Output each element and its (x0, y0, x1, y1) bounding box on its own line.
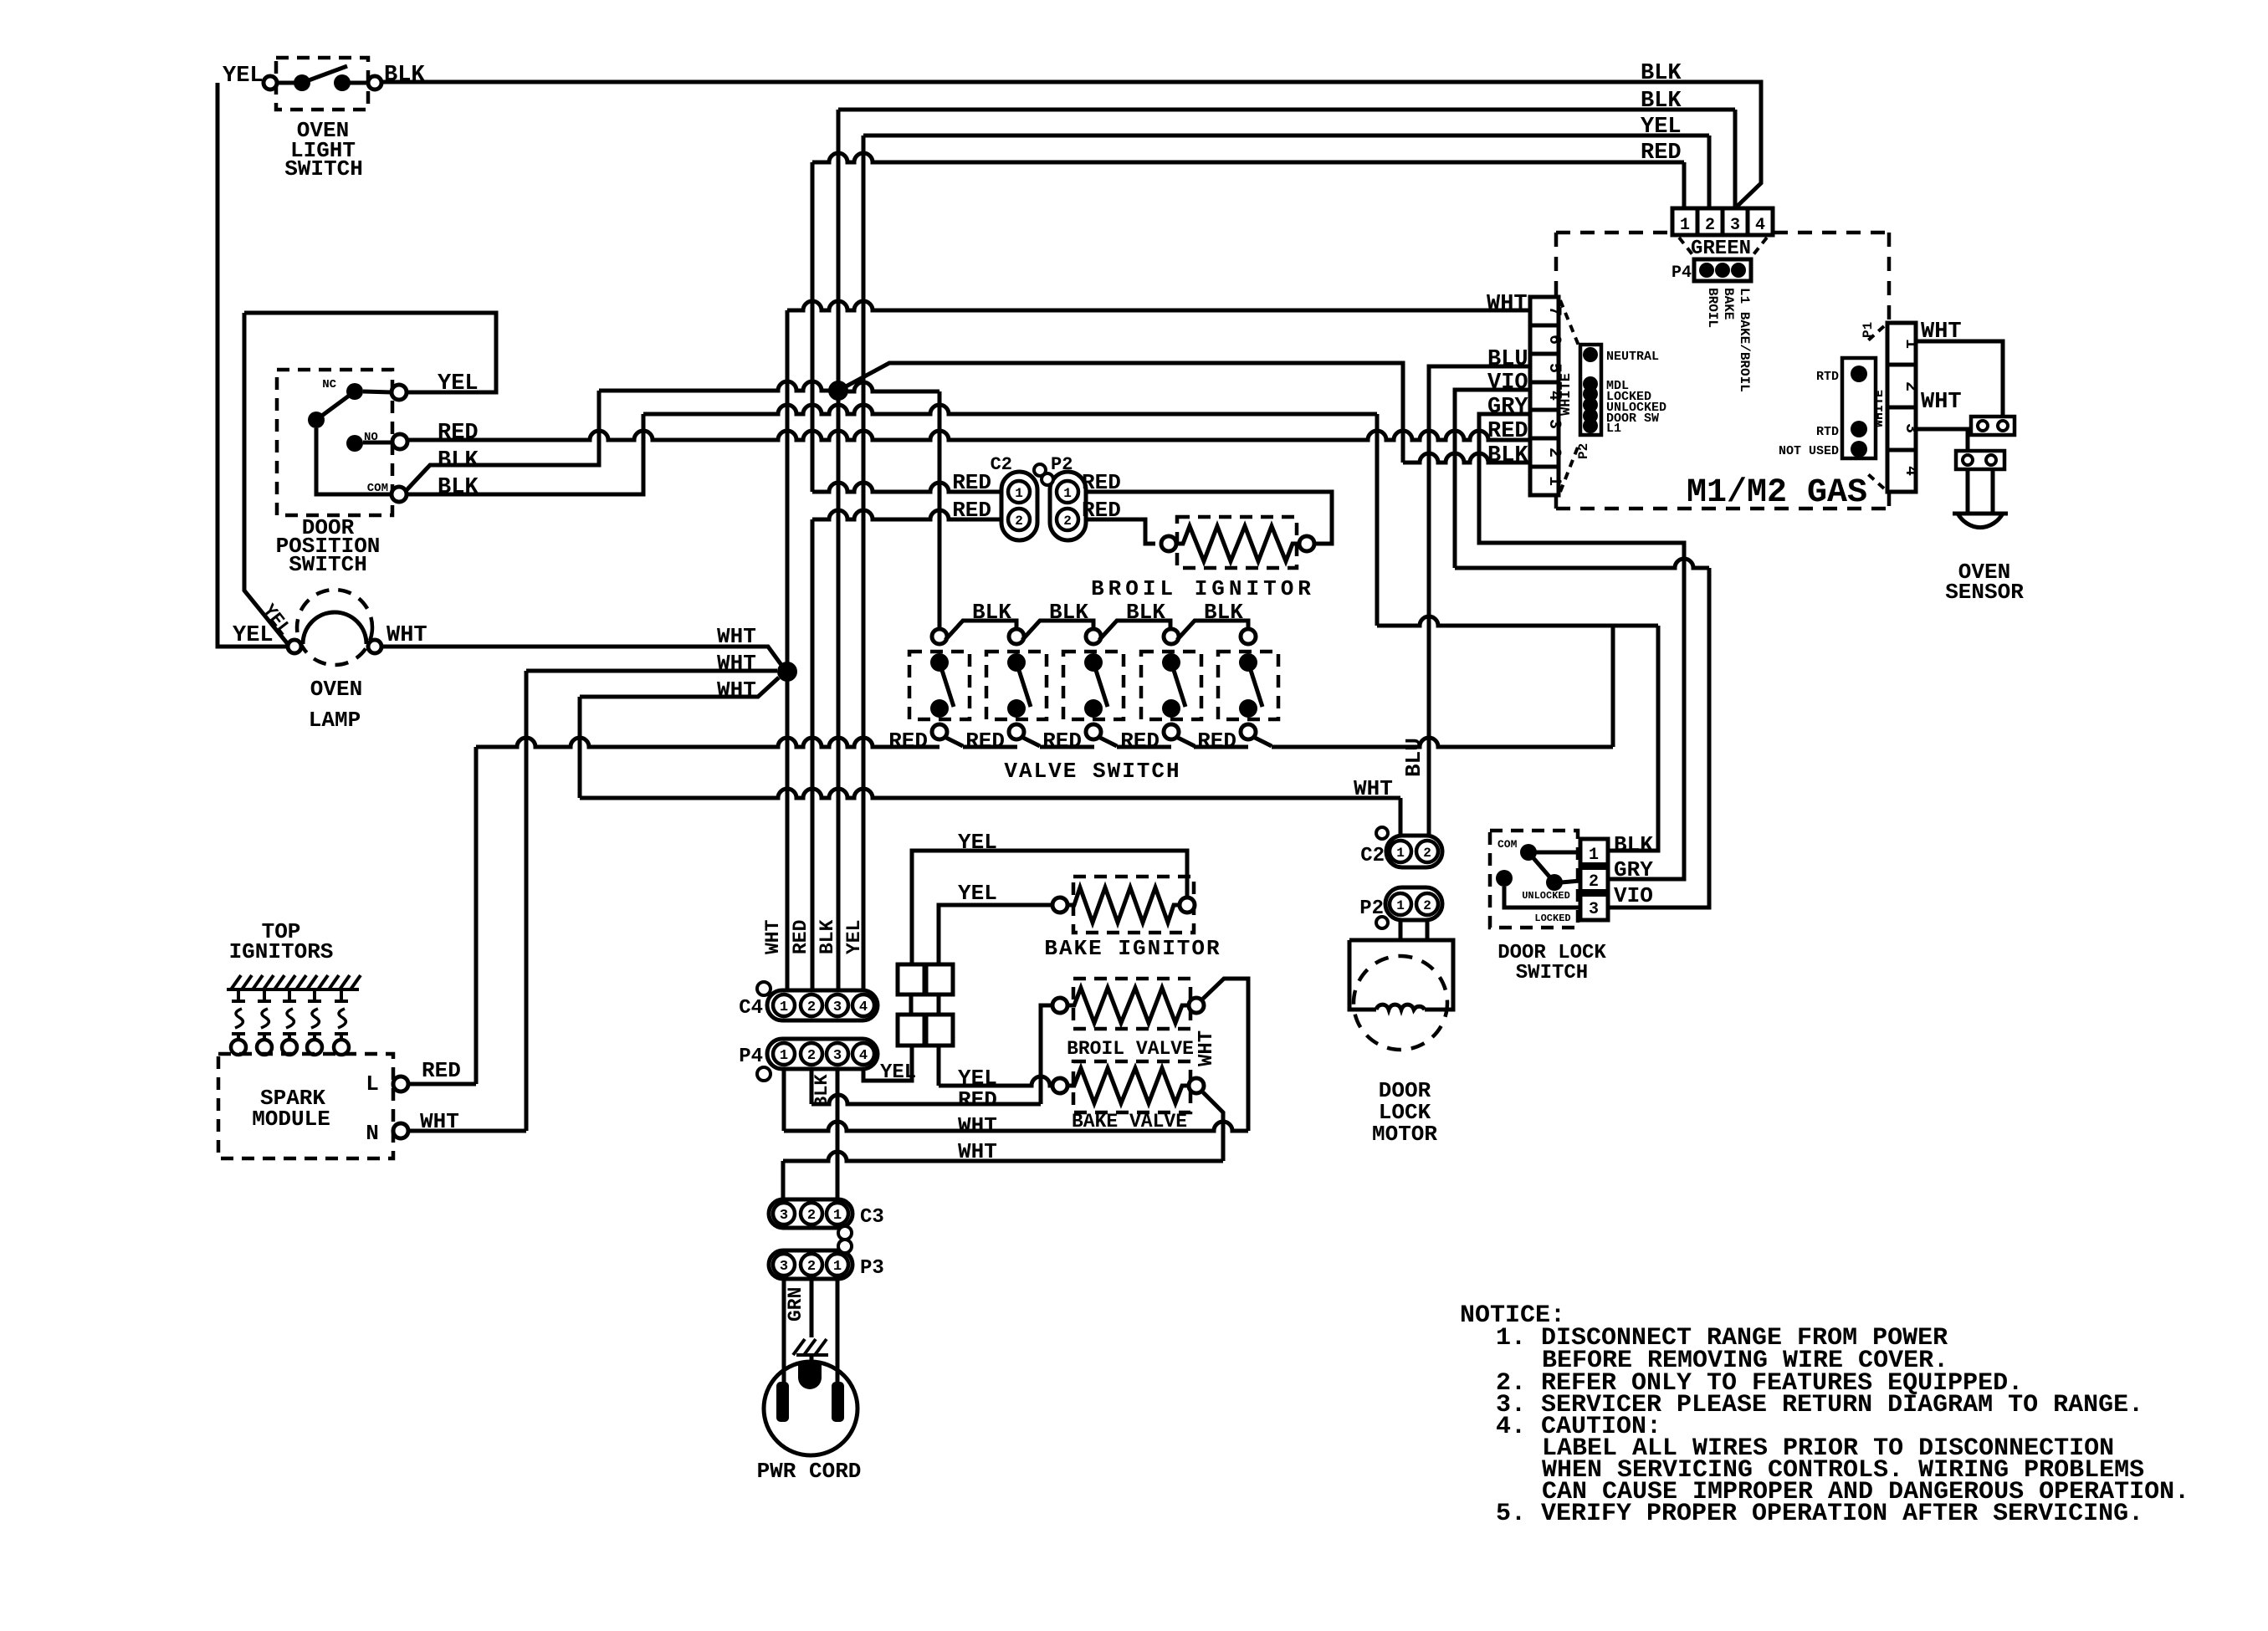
svg-text:BLU: BLU (1487, 347, 1528, 372)
svg-text:L1: L1 (1606, 422, 1621, 436)
svg-text:MODULE: MODULE (252, 1107, 330, 1132)
door lock motor (1354, 956, 1447, 1050)
svg-text:RED: RED (952, 470, 991, 495)
svg-text:COM: COM (367, 482, 388, 495)
wire P3 pin3 to power cord left blade (782, 1279, 786, 1384)
svg-text:WHT: WHT (1195, 1030, 1218, 1066)
connector C4 (767, 990, 878, 1020)
svg-text:GREEN: GREEN (1691, 238, 1751, 260)
svg-text:RED: RED (965, 729, 1005, 754)
wire GRN P3 pin2 to ground / center prong (810, 1279, 814, 1337)
wire: branch down to valve switch RED bus (1611, 626, 1615, 747)
svg-text:RED: RED (1120, 729, 1160, 754)
svg-text:VALVE SWITCH: VALVE SWITCH (1004, 759, 1180, 784)
svg-text:BLK: BLK (811, 1074, 832, 1107)
wire YEL upper loop to bake ignitor (912, 851, 1187, 964)
power cord right blade (832, 1382, 844, 1422)
svg-text:BROIL IGNITOR: BROIL IGNITOR (1091, 576, 1315, 601)
svg-text:P4: P4 (739, 1046, 763, 1068)
valve switch 4 (1141, 652, 1201, 719)
svg-text:P2: P2 (1359, 897, 1384, 920)
wire BLK link valve switch 3 to 4 (1099, 621, 1170, 640)
bake valve (1073, 1061, 1190, 1112)
svg-text:RED: RED (952, 498, 991, 523)
svg-text:DOOR LOCK: DOOR LOCK (1497, 942, 1606, 964)
svg-text:NOT USED: NOT USED (1779, 444, 1839, 458)
svg-text:WHT: WHT (1487, 292, 1528, 317)
svg-text:SWITCH: SWITCH (284, 156, 363, 182)
svg-text:L1 BAKE/BROIL: L1 BAKE/BROIL (1737, 288, 1752, 392)
svg-text:BLK: BLK (817, 919, 838, 954)
thermal fuse pair B (898, 1015, 924, 1046)
wire BLK link valve switch 1 to 2 (945, 621, 1016, 640)
svg-text:2: 2 (1063, 514, 1072, 529)
svg-text:BROIL: BROIL (1705, 288, 1720, 328)
svg-text:C2: C2 (991, 454, 1012, 475)
svg-text:YEL: YEL (880, 1061, 916, 1084)
svg-text:IGNITORS: IGNITORS (229, 939, 334, 964)
top ignitors hatched bar (227, 988, 359, 991)
svg-text:BAKE IGNITOR: BAKE IGNITOR (1044, 936, 1221, 961)
svg-text:MOTOR: MOTOR (1372, 1122, 1437, 1147)
door lock motor coil (1376, 1005, 1425, 1010)
spark module terminal N (393, 1123, 408, 1138)
svg-text:P2: P2 (1051, 454, 1073, 475)
svg-text:C2: C2 (1360, 845, 1385, 867)
wire RED C2/P2 upper row (812, 483, 1001, 492)
svg-text:RED: RED (1082, 498, 1121, 523)
P1 pin dots RTD (1842, 358, 1876, 458)
M1/M2 P1 connector (oven sensor) (1887, 323, 1916, 492)
svg-text:1: 1 (1396, 898, 1405, 913)
svg-text:2: 2 (1423, 898, 1431, 913)
wire RED from door position NO to M1/M2 connector pin 2 (407, 431, 1530, 440)
wire BLK diagonal from node A to M1/M2 pin 1 (838, 363, 1403, 463)
valve switch 2 (986, 652, 1047, 719)
svg-text:PWR CORD: PWR CORD (757, 1459, 862, 1484)
spark module (218, 1054, 393, 1158)
wire: right leg down to horizontal run y=748 (1375, 414, 1380, 626)
svg-text:BAKE VALVE: BAKE VALVE (1072, 1111, 1187, 1132)
wire BLK P4 pin3 to C3 pin 1 (836, 1069, 840, 1199)
wire RED P4 pin2 to broil valve left terminal (810, 1069, 814, 1104)
junction dot WHT bus / oven lamp return (777, 662, 797, 682)
svg-text:RED: RED (1487, 419, 1528, 444)
svg-text:4: 4 (859, 1000, 868, 1015)
svg-text:RED: RED (888, 729, 928, 754)
P1 trapezoid dashes (1868, 326, 1884, 488)
connector P3 (769, 1250, 852, 1279)
wire YEL to bake ignitor left (939, 905, 1052, 964)
svg-text:WHITE: WHITE (1559, 373, 1574, 416)
wire WHT P1 pin3 to oven sensor (1916, 429, 1968, 451)
svg-text:GRN: GRN (785, 1287, 806, 1322)
svg-text:VIO: VIO (1614, 883, 1653, 908)
bake ignitor (1073, 877, 1194, 933)
svg-text:1: 1 (780, 1048, 788, 1064)
svg-text:BLK: BLK (1487, 443, 1528, 468)
wire WHT P1 pin1 to oven sensor (1916, 341, 2003, 417)
P2 pin-function dots (1580, 345, 1601, 435)
wire YEL loop left leg down to oven lamp (diagonal) (244, 313, 288, 644)
spark module terminal L (393, 1076, 408, 1092)
svg-text:BAKE: BAKE (1721, 288, 1736, 320)
wire RED from P2 pin1 to broil ignitor right terminal (1086, 492, 1332, 544)
svg-text:SWITCH: SWITCH (1516, 962, 1588, 984)
svg-text:2: 2 (1423, 846, 1431, 861)
svg-text:5. VERIFY PROPER OPERATION AFT: 5. VERIFY PROPER OPERATION AFTER SERVICI… (1496, 1500, 2143, 1528)
wire VIO door lock pin3 to M1/M2 pin 4 (1608, 568, 1709, 908)
svg-text:WHT: WHT (762, 919, 784, 954)
oven light switch (276, 58, 368, 110)
svg-text:WHT: WHT (717, 624, 756, 649)
svg-text:BLK: BLK (1641, 61, 1682, 86)
wire BLK link valve switch 4 to 5 (1177, 621, 1248, 640)
valve switch 3 (1063, 652, 1124, 719)
valve switch 4 RED diagonal to bus (1176, 737, 1195, 746)
bus wire RED upper segment to top connector pin 1 (811, 162, 815, 492)
svg-text:RED: RED (1641, 141, 1682, 166)
svg-text:UNLOCKED: UNLOCKED (1522, 890, 1570, 902)
svg-text:YEL: YEL (438, 371, 479, 396)
M1/M2 7-pin connector P2 (1530, 297, 1559, 495)
svg-text:RTD: RTD (1816, 370, 1839, 384)
svg-text:P1: P1 (1861, 322, 1876, 338)
svg-text:LOCKED: LOCKED (1534, 913, 1570, 924)
oven lamp (297, 590, 372, 665)
wire WHT-B riser to junction dot (580, 677, 779, 798)
svg-text:3: 3 (1730, 216, 1740, 235)
svg-text:C4: C4 (739, 997, 763, 1020)
svg-text:SWITCH: SWITCH (289, 552, 367, 577)
svg-text:3: 3 (780, 1259, 788, 1275)
svg-text:M1/M2 GAS: M1/M2 GAS (1687, 474, 1867, 512)
svg-text:4: 4 (1755, 216, 1765, 235)
chassis ground symbol (793, 1339, 805, 1355)
door position switch (277, 370, 392, 515)
svg-text:YEL: YEL (958, 830, 997, 855)
wire RED from P2 pin2 to broil ignitor left terminal (1086, 519, 1155, 544)
svg-text:P4: P4 (1672, 263, 1692, 283)
wire BLK from node A to valve switch 1 (838, 382, 939, 391)
svg-text:2: 2 (1589, 872, 1599, 892)
valve switch 2 RED diagonal to bus (1021, 737, 1040, 746)
wire P3 pin1 to power cord right blade (836, 1279, 840, 1384)
svg-text:WHT: WHT (1921, 320, 1962, 345)
svg-text:YEL: YEL (233, 623, 274, 648)
svg-text:BLK: BLK (1641, 89, 1682, 114)
svg-text:RED: RED (958, 1087, 997, 1112)
svg-text:COM: COM (1497, 838, 1518, 851)
top ignitor 3 spark gap (288, 989, 291, 1001)
svg-text:WHT: WHT (420, 1109, 459, 1134)
svg-text:3: 3 (1544, 419, 1564, 429)
svg-text:3: 3 (780, 1208, 788, 1224)
door lock switch (1490, 831, 1578, 928)
svg-text:6: 6 (1544, 335, 1564, 345)
svg-text:5: 5 (1544, 363, 1564, 373)
wire BLK from oven light switch to top connector pin 3 (381, 82, 1761, 207)
svg-text:1: 1 (1063, 486, 1072, 501)
svg-text:RED: RED (1082, 470, 1121, 495)
svg-text:RTD: RTD (1816, 425, 1839, 439)
svg-text:WHT: WHT (1921, 390, 1962, 415)
svg-text:YEL: YEL (1641, 115, 1682, 140)
svg-text:WHITE: WHITE (1872, 390, 1887, 427)
wire GRY door lock pin2 to M1/M2 pin 3 (1479, 414, 1684, 879)
bus wire WHT (vertical) with corner to M1/M2 pin 7 (786, 310, 790, 990)
wire WHT to bake valve right terminal / C3 pin 3 (781, 1161, 786, 1199)
svg-text:WHT: WHT (958, 1139, 997, 1164)
wire BLK2 from door position COM toward valve switch bus and door lock (407, 414, 643, 494)
wire WHT to lock motor connector C2 pin 1 (580, 789, 1400, 798)
svg-text:WHT: WHT (717, 651, 756, 676)
svg-text:1: 1 (1680, 216, 1690, 235)
svg-text:1: 1 (833, 1259, 842, 1275)
power cord (764, 1362, 858, 1455)
broil valve (1073, 979, 1190, 1029)
svg-text:RED: RED (790, 920, 811, 954)
wire YEL P4 pin4 to fuse B (863, 1046, 912, 1081)
svg-text:1: 1 (1015, 486, 1023, 501)
svg-text:1: 1 (1589, 846, 1599, 865)
broil ignitor (1177, 517, 1297, 568)
svg-text:LAMP: LAMP (309, 708, 361, 733)
svg-text:3: 3 (1589, 900, 1599, 919)
connector C3 (769, 1199, 852, 1228)
svg-text:3: 3 (833, 1048, 842, 1064)
top ignitor 5 spark gap (340, 989, 343, 1001)
svg-text:BLK: BLK (1614, 832, 1653, 857)
svg-text:1: 1 (1544, 476, 1564, 486)
svg-text:1: 1 (780, 1000, 788, 1015)
svg-text:P2: P2 (1576, 443, 1591, 459)
svg-text:SENSOR: SENSOR (1945, 580, 2024, 605)
svg-text:BLK: BLK (1204, 600, 1243, 625)
svg-text:4: 4 (859, 1048, 868, 1064)
svg-text:1: 1 (833, 1208, 842, 1224)
oven sensor probe (1966, 469, 1970, 514)
lock motor connector C2 (lower) (1386, 836, 1442, 867)
P2 trapezoid dashes (1560, 300, 1579, 492)
valve switch 1 RED diagonal to bus (945, 737, 963, 746)
svg-text:NC: NC (322, 378, 336, 391)
svg-text:WHT: WHT (717, 677, 756, 703)
connector C2 (upper) (1001, 472, 1037, 540)
svg-text:RED: RED (422, 1058, 461, 1083)
wire RED/L1 bus from spark module to valve switches (407, 747, 476, 1084)
svg-text:2: 2 (1544, 447, 1564, 458)
svg-text:3: 3 (833, 1000, 842, 1015)
svg-text:WHT: WHT (958, 1113, 997, 1138)
top ignitor 2 spark gap (263, 989, 266, 1001)
wire BLK link valve switch 2 to 3 (1022, 621, 1093, 640)
wire BLU from M1/M2 pin 5 to lock motor connector C2 pin 2 (1429, 366, 1530, 836)
valve switch 3 RED diagonal to bus (1098, 737, 1117, 746)
oven sensor terminal block 2 (1956, 451, 2004, 469)
valve switch 1 (909, 652, 970, 719)
node A junction dot (BLK bus) (828, 381, 848, 401)
svg-text:2: 2 (807, 1000, 816, 1015)
svg-text:1: 1 (1396, 846, 1405, 861)
svg-text:P3: P3 (860, 1257, 884, 1280)
svg-text:OVEN: OVEN (310, 677, 362, 702)
valve switch 5 RED diagonal to bus (1253, 737, 1272, 746)
svg-text:L: L (366, 1071, 379, 1097)
svg-text:BROIL VALVE: BROIL VALVE (1067, 1038, 1194, 1060)
svg-text:2: 2 (807, 1208, 816, 1224)
power cord left blade (776, 1382, 789, 1422)
wire YEL loop from door position switch NC up and over (244, 313, 496, 392)
svg-text:YEL: YEL (843, 920, 865, 954)
wire links fuse A to B (909, 994, 914, 1015)
connector P4 (767, 1039, 878, 1069)
svg-text:RED: RED (1197, 729, 1236, 754)
P4 header on board (1694, 259, 1751, 281)
svg-text:N: N (366, 1121, 379, 1146)
svg-text:2: 2 (1705, 216, 1715, 235)
svg-text:2: 2 (1901, 381, 1920, 391)
wire WHT P4 pin1 to broil valve right terminal (782, 1069, 786, 1131)
svg-text:YEL: YEL (958, 881, 997, 906)
svg-text:BLK: BLK (1126, 600, 1165, 625)
svg-text:2: 2 (807, 1259, 816, 1275)
svg-text:C3: C3 (860, 1206, 884, 1229)
connector P2 (upper) (1050, 472, 1086, 540)
top ignitor 4 spark gap (313, 989, 316, 1001)
wire WHT-A from spark module N riser to junction dot (408, 671, 777, 1131)
svg-text:4: 4 (1901, 466, 1920, 476)
wire BLK door lock switch pin1 riser (1608, 626, 1658, 851)
valve switch 5 (1218, 652, 1278, 719)
svg-text:BLK: BLK (1049, 600, 1088, 625)
svg-text:7: 7 (1544, 306, 1564, 316)
bus wire BLK (vertical) to C4 pin 3 and top connector pin 3 (837, 110, 841, 990)
svg-text:WHT: WHT (1354, 776, 1393, 801)
wire WHT from oven lamp to junction dot (381, 647, 781, 665)
lock motor connector P2 (lower) (1385, 887, 1442, 920)
door lock switch connector (1580, 839, 1608, 920)
svg-text:2: 2 (1015, 514, 1023, 529)
wire YEL fuse B to bake valve left terminal (937, 1046, 941, 1086)
wire BLK from door position COM to junction node A (406, 391, 599, 491)
wire RED C2/P2 lower row (812, 510, 1001, 519)
bus wire YEL (vertical) to C4 pin 4 and top connector pin 2 (862, 135, 866, 990)
svg-text:BLU: BLU (1401, 738, 1426, 777)
svg-text:NEUTRAL: NEUTRAL (1606, 350, 1659, 364)
thermal fuse pair A (898, 964, 924, 994)
svg-text:GRY: GRY (1487, 395, 1528, 420)
svg-text:YEL: YEL (223, 64, 264, 89)
bus wire RED lower segment to C4 pin 2 (811, 519, 815, 990)
wire YEL from oven light switch down-left to oven lamp (218, 83, 288, 647)
top connector 1-4 (green lead) (1672, 208, 1773, 235)
M1/M2 GAS control dashed box (1556, 233, 1889, 509)
GREEN trapezoid to P4 header (1679, 238, 1767, 258)
svg-text:2: 2 (807, 1048, 816, 1064)
svg-text:BLK: BLK (972, 600, 1011, 625)
oven sensor terminal block 1 (1971, 417, 2015, 435)
svg-text:BLK: BLK (438, 448, 479, 473)
wires P2 to door lock motor (1399, 920, 1403, 940)
power cord center ground prong (798, 1363, 822, 1389)
svg-text:VIO: VIO (1487, 371, 1528, 396)
top ignitor 1 spark gap (237, 989, 240, 1001)
svg-text:RED: RED (1042, 729, 1082, 754)
